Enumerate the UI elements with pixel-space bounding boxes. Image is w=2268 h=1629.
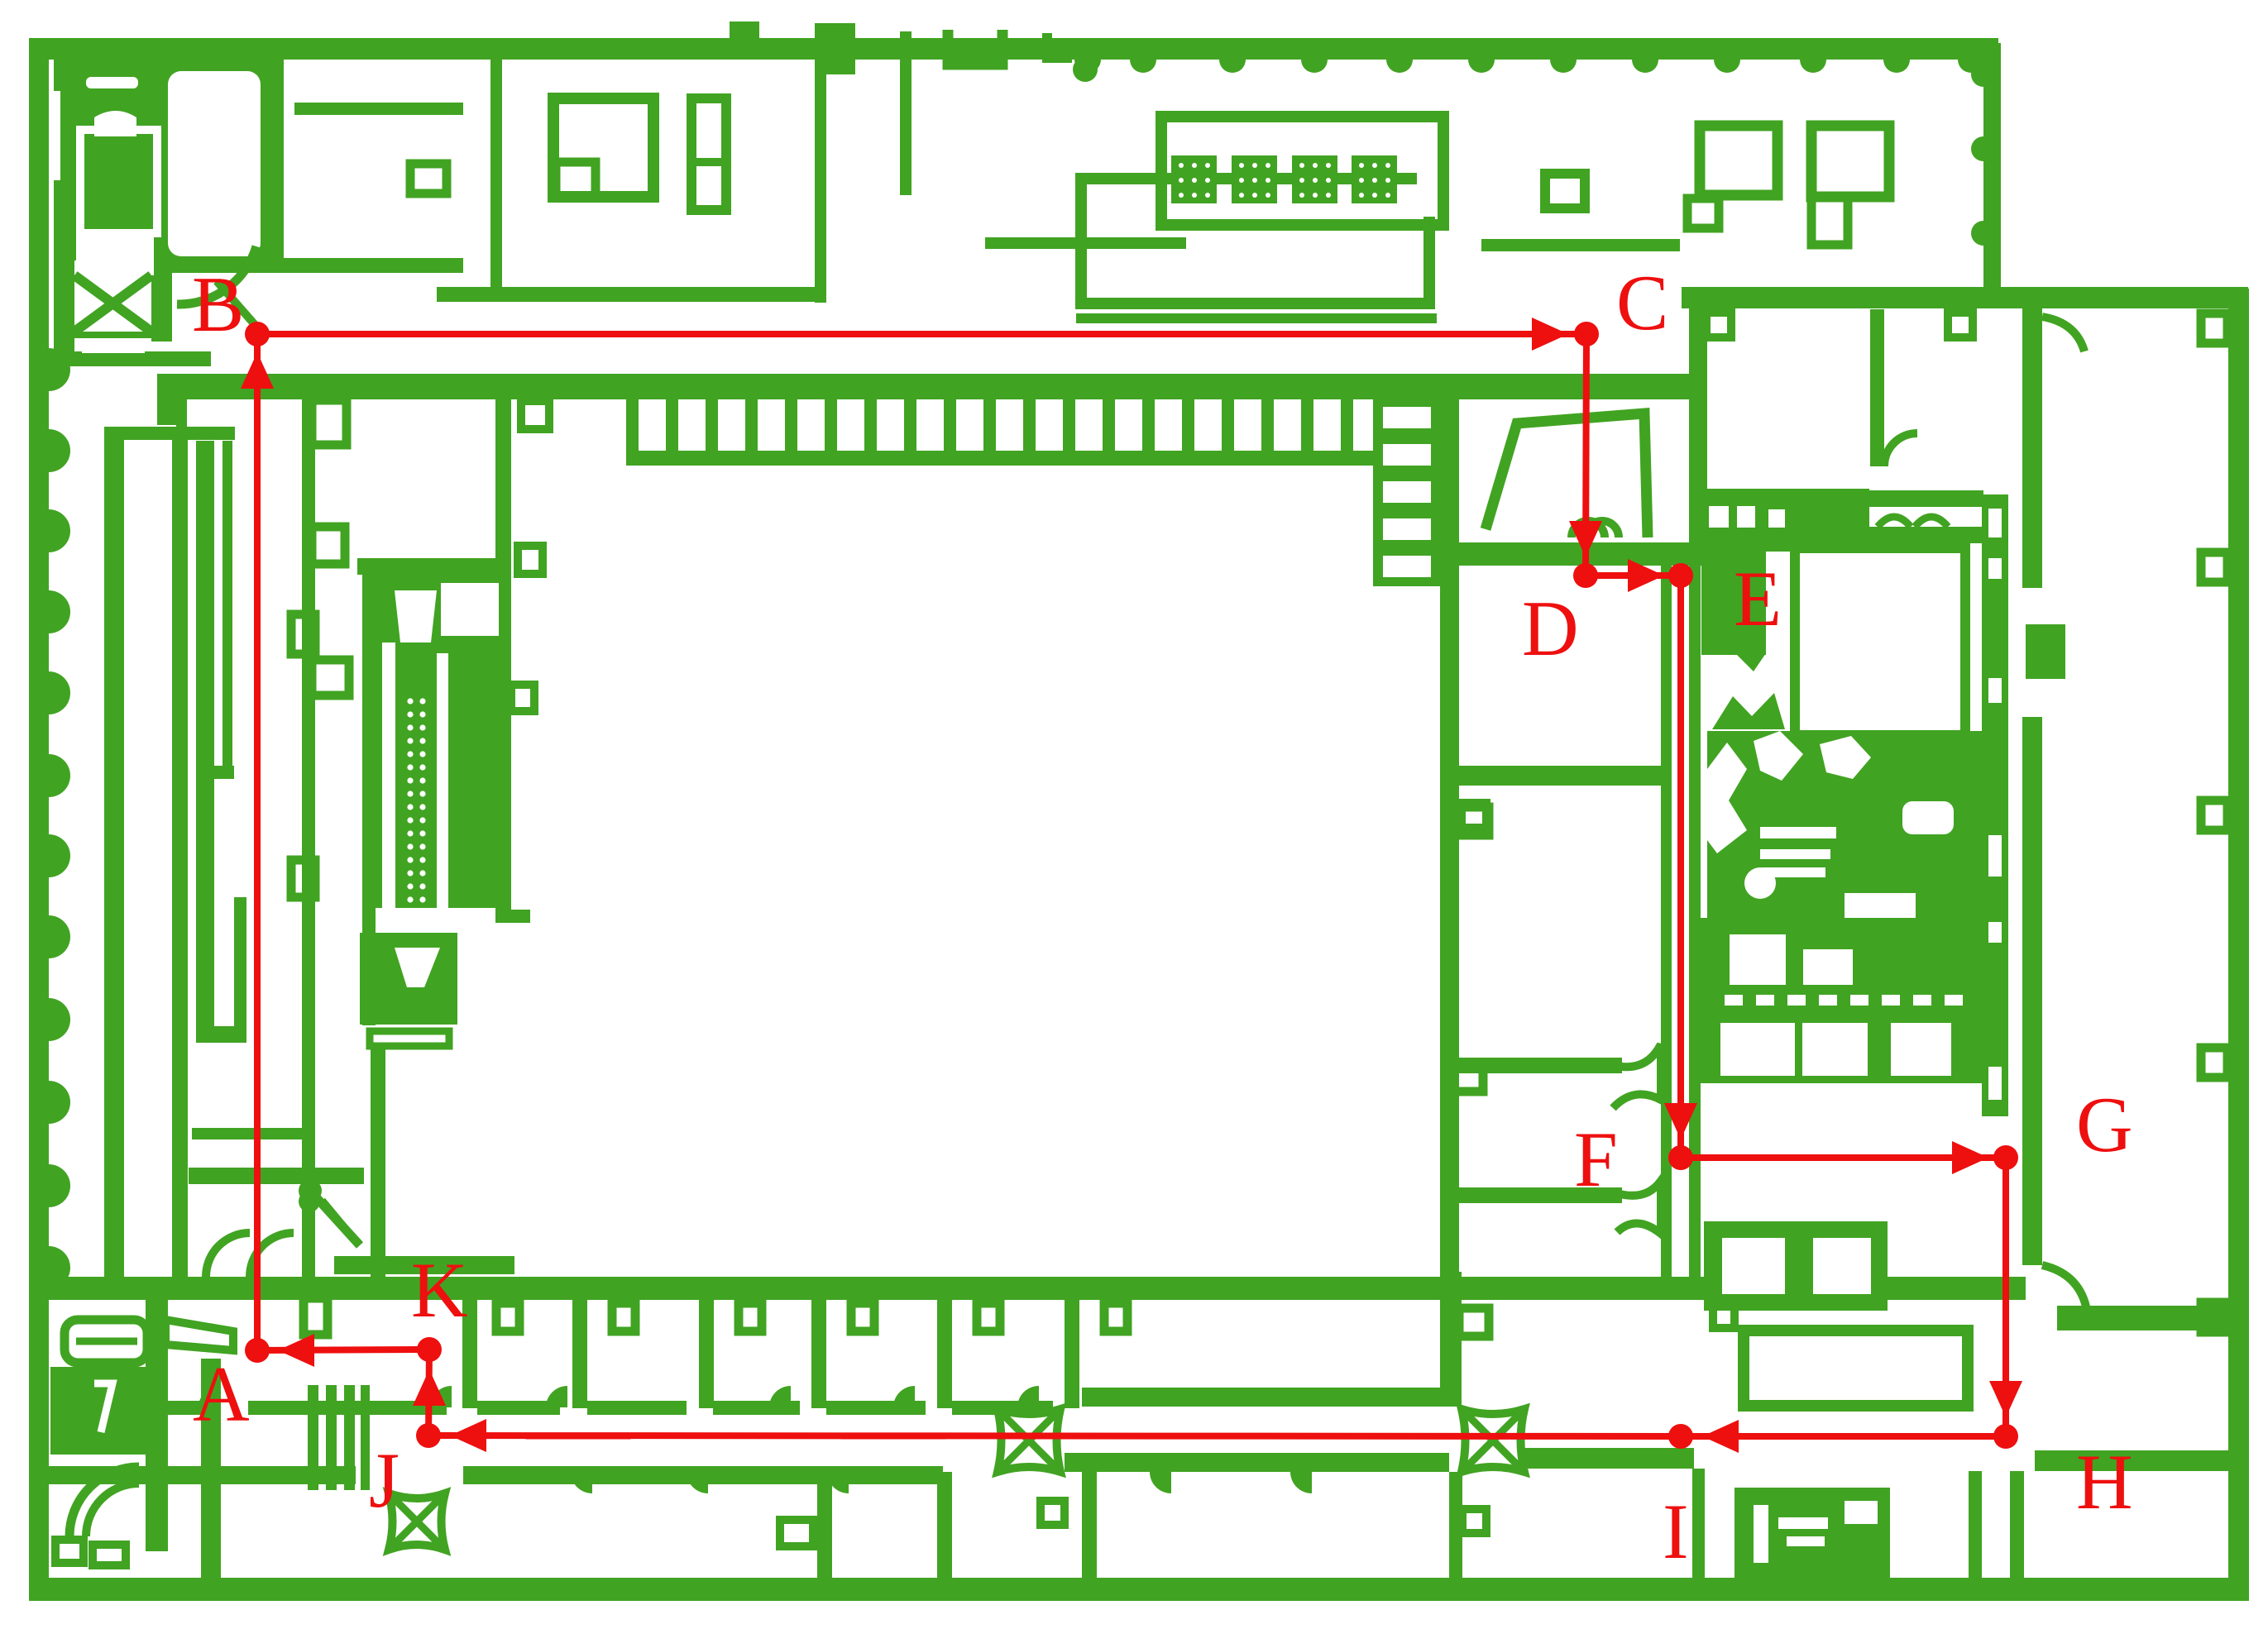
mid-left tab 3 (291, 614, 315, 654)
D room top wall (1440, 542, 1691, 566)
top-left thin under X-box (74, 332, 151, 338)
path segment E-F (1677, 576, 1684, 1158)
top-left block base (54, 58, 271, 260)
corridor wall segment left of I (1613, 1448, 1694, 1469)
stove unit (1697, 918, 1982, 1083)
door swing bumps lower row (571, 1472, 1312, 1493)
left stacks line 2 (196, 441, 214, 1026)
hatched corridor bottom rail (626, 451, 1383, 466)
left stacks outer wall (104, 427, 124, 1277)
svg-text:A: A (193, 1350, 250, 1438)
auditorium foot funnel (395, 948, 440, 987)
room divider 2 right of courtyard (1458, 1187, 1622, 1203)
top strip desk (553, 98, 653, 197)
path segment B-C (257, 331, 1586, 337)
left stacks line 3 (222, 441, 232, 778)
elevator X (74, 275, 151, 332)
svg-text:D: D (1522, 585, 1579, 672)
top-left white cup (94, 111, 136, 136)
lower rooms top wall right (1065, 1453, 1449, 1472)
top-right desk 2 (1811, 126, 1889, 197)
arrow to G corner (1952, 1141, 1988, 1174)
top strip left wall (490, 58, 502, 300)
auditorium slot left (382, 643, 395, 933)
top-right block right wall (1983, 43, 2001, 308)
courtyard wall tab 1 (1459, 807, 1489, 835)
wall right of top-left block (271, 58, 284, 258)
kitchen band thin 2 (1868, 527, 1983, 543)
I room right wall B (2010, 1471, 2024, 1580)
E green blob (1701, 546, 1766, 655)
courtyard left wall (495, 374, 511, 921)
white room border (kitchen) (1795, 548, 1965, 735)
courtyard right wall (1440, 374, 1459, 1293)
G door block (2026, 624, 2065, 679)
big table lower (1744, 1330, 1968, 1406)
courtyard left wall foot (495, 910, 530, 923)
big room bottom wall (1082, 1388, 1456, 1407)
courtyard top wall stub (176, 399, 187, 431)
path segment H-I (1681, 1433, 2006, 1440)
svg-text:B: B (192, 260, 244, 348)
I room furniture marks (1754, 1501, 1878, 1563)
lower room dividers (817, 1472, 1097, 1580)
path segment K-A (257, 1350, 429, 1350)
arrow to E (1628, 559, 1664, 592)
bottom-left wall vertical 2 (201, 1359, 221, 1589)
svg-text:I: I (1663, 1488, 1689, 1575)
thin wall mid-right (1481, 239, 1680, 251)
top strip desk inner box (556, 162, 596, 197)
courtyard wall stub tab 1 (521, 401, 549, 429)
outer wall top (29, 38, 1998, 60)
mid-left wall (302, 392, 315, 1278)
column dots along left outer wall (49, 348, 70, 1289)
double door bowtie mid (998, 1409, 1060, 1472)
top-right desk 1 tab (1687, 198, 1719, 228)
left stacks line 2 foot (196, 1026, 234, 1043)
arrow to D (1569, 521, 1602, 557)
G left wall upper (2022, 307, 2042, 588)
right wall notches (2201, 313, 2227, 1332)
kitchen star blob 2 (1735, 635, 1766, 671)
thin wall mid-left (985, 237, 1186, 249)
bowtie marks above D (1572, 521, 1605, 537)
left stacks top wall (104, 427, 235, 440)
A-room funnel door (165, 1320, 233, 1350)
path node labels (192, 259, 2133, 1575)
top-right desk 2 tab (1811, 197, 1848, 245)
room7 numeral (94, 1383, 112, 1432)
door cusp 1 (1613, 1044, 1661, 1108)
bottom-left wall vertical 1 (146, 1297, 168, 1551)
arrow to H (1989, 1381, 2022, 1417)
lower rooms top wall far right (1524, 1448, 1692, 1469)
table offset rect (1081, 179, 1429, 303)
svg-text:E: E (1734, 555, 1782, 643)
top-left cabinet outline (80, 130, 157, 233)
hatched corridor rungs (626, 399, 1353, 456)
dresser white squares (1722, 1238, 1871, 1294)
small square right of table (1545, 174, 1585, 208)
bottom-left square 2 (93, 1545, 126, 1565)
top-left white bar (86, 77, 138, 88)
auditorium head funnel (395, 590, 437, 643)
path segment C-D (1586, 334, 1586, 576)
top strip right wall (815, 30, 826, 303)
double arc door A (206, 1233, 250, 1277)
arrow to K (413, 1369, 446, 1406)
A-K top wall double (334, 1256, 514, 1274)
kitchen top band (1701, 489, 1869, 552)
top strip narrow desk (691, 98, 726, 210)
notch below wall A (1706, 313, 1731, 337)
top elbow mark (1047, 33, 1072, 58)
wall right of D room (1689, 307, 1707, 566)
top U bracket (948, 30, 1002, 64)
auditorium foot block (360, 933, 457, 1025)
G left wall lower (2022, 717, 2042, 1265)
left stacks line 3 foot (214, 766, 234, 779)
table outer rect (1161, 117, 1443, 225)
top-right room divider (1870, 309, 1884, 466)
I room left wall (1692, 1469, 1705, 1579)
dresser tab (1713, 1302, 1734, 1328)
courtyard wall stub tab 2 (518, 546, 543, 574)
outer wall left (29, 38, 49, 1600)
corridor thin wall below top-left block (170, 258, 463, 273)
kitchen band thin 1 (1868, 490, 1983, 507)
path segment A-B (254, 334, 261, 1350)
top-left block bottom edge (54, 351, 211, 366)
K furniture stripes (308, 1385, 318, 1490)
top-left door diagonal (217, 281, 263, 334)
top-left door arc (177, 246, 256, 304)
mid-left tab 5 (291, 860, 315, 897)
lower divider right (1449, 1472, 1462, 1580)
bed inner line (76, 1338, 137, 1345)
top-left block mid column (151, 259, 172, 342)
kitchen top band white bits (1709, 506, 1729, 528)
room divider 1 right of courtyard (1458, 1058, 1622, 1073)
kitchen star blob 1 (1712, 693, 1785, 729)
mid-left door hinge dot (299, 1191, 320, 1212)
kitchen white cutouts (1707, 731, 1954, 989)
auditorium slot right (437, 653, 448, 933)
arrow to A (278, 1334, 314, 1367)
path segment J-K (428, 1350, 429, 1436)
mid-left tab 1 (312, 400, 347, 445)
G door arc mid (2042, 1265, 2086, 1307)
svg-text:H: H (2076, 1438, 2133, 1526)
bottom band room dividers (462, 1298, 1079, 1408)
path segment F-G (1681, 1154, 2006, 1161)
table dotted squares (1171, 155, 1397, 203)
G room divider 2 (2035, 1450, 2248, 1471)
auditorium top plate (357, 558, 511, 575)
bottom-left door arcs (69, 1467, 139, 1536)
path segment I-J (428, 1436, 1681, 1436)
outer wall right (2228, 289, 2249, 1601)
corridor wall stub (900, 31, 912, 195)
arrow to J (450, 1419, 486, 1452)
courtyard lower-left wall (371, 1044, 385, 1300)
stair shaft (1373, 394, 1441, 586)
auditorium body (376, 566, 508, 908)
svg-text:K: K (411, 1246, 468, 1334)
svg-text:F: F (1574, 1115, 1618, 1203)
top-right desk 1 (1700, 126, 1778, 195)
lower rooms top wall mid (463, 1466, 943, 1484)
courtyard wall foot (1440, 1272, 1462, 1407)
top-left big room (168, 71, 261, 256)
I room furniture (1734, 1488, 1890, 1580)
room7 cabinet (50, 1367, 146, 1455)
mid-left tab 4 (312, 660, 349, 695)
mid-left door leaf (322, 1201, 354, 1240)
svg-text:G: G (2076, 1081, 2133, 1168)
K room tab (304, 1298, 328, 1335)
path segment D-E (1586, 572, 1681, 579)
kitchen main mass (1707, 731, 2005, 1007)
dresser unit (1704, 1221, 1888, 1311)
top strip narrow desk divider (691, 158, 726, 166)
diagonal door below (310, 1191, 360, 1245)
G room divider 1 (2057, 1306, 2248, 1330)
top-left white slot (49, 91, 60, 180)
top-left white rect (76, 231, 154, 275)
arrow to B (241, 352, 274, 389)
top strip thin wall (294, 103, 463, 115)
top wall notch block B (815, 23, 855, 74)
A-room wall stub (203, 1373, 214, 1440)
auditorium head square (441, 583, 499, 636)
courtyard wall stub tab 3 (511, 685, 534, 711)
door cusp 2 (1617, 1181, 1661, 1234)
lower room wall squares (780, 1501, 1486, 1546)
double door bowtie left (J) (389, 1493, 445, 1550)
bottom band room tabs (496, 1303, 1127, 1331)
kitchen window slots (1988, 509, 2002, 1100)
double door bowtie right (1462, 1409, 1524, 1472)
trapezoid room wall (1486, 413, 1648, 537)
outer wall bottom (29, 1578, 2248, 1601)
D room notch (1462, 803, 1486, 828)
top-right room divider arc (1884, 433, 1917, 466)
bottom band room front walls (66, 1401, 1053, 1415)
E corridor left wall (1661, 566, 1672, 1293)
top-left block left column (54, 259, 74, 366)
corridor top wall (south band) (47, 1277, 2026, 1300)
column dots along top wall (1074, 60, 1984, 73)
bottom-left square 1 (55, 1540, 84, 1563)
courtyard wall tab 3 (1459, 1308, 1489, 1336)
svg-text:C: C (1616, 259, 1668, 346)
D room bottom wall (1458, 766, 1661, 786)
stove white cutouts (1720, 934, 1963, 1076)
G door arc top (2042, 317, 2084, 351)
top-right interior dots (1971, 62, 1983, 246)
arrow to C (1532, 318, 1568, 351)
top strip desk square (410, 164, 447, 193)
auditorium foot slot (370, 1031, 449, 1046)
I room right wall A (1969, 1471, 1982, 1580)
mid-left tab 2 (312, 527, 345, 564)
escalator dots (407, 698, 425, 915)
courtyard top wall left cap (157, 374, 184, 425)
table bottom thin line (1076, 313, 1437, 323)
wall under top-right block (1682, 287, 2248, 308)
courtyard wall tab 2 (1451, 1066, 1483, 1092)
arrow to I (1702, 1420, 1739, 1453)
auditorium left wall (362, 558, 376, 1025)
left low wall (192, 1128, 311, 1139)
bed furniture (65, 1320, 147, 1363)
top-left white bar low (82, 338, 145, 353)
svg-text:J: J (369, 1436, 400, 1524)
door swing bumps upper row (199, 1386, 1039, 1407)
notch below wall B (1948, 313, 1973, 337)
arrow to F (1664, 1103, 1697, 1139)
top wall notch block A (730, 21, 759, 43)
lower rooms top wall left (47, 1466, 356, 1484)
kitchen band hooks (1878, 517, 1911, 527)
table inner slot (1417, 124, 1437, 217)
E corridor right wall (1689, 566, 1701, 1293)
top strip bottom wall (437, 287, 825, 302)
left stacks line 1 (172, 430, 188, 1287)
path segment G-H (2002, 1158, 2009, 1436)
courtyard top wall (157, 374, 1707, 399)
left stacks line 4 (234, 897, 246, 1043)
kitchen window wall (1982, 494, 2008, 1116)
path node dots (245, 322, 2018, 1449)
elevator box (74, 275, 151, 332)
room wall above A (189, 1168, 364, 1184)
